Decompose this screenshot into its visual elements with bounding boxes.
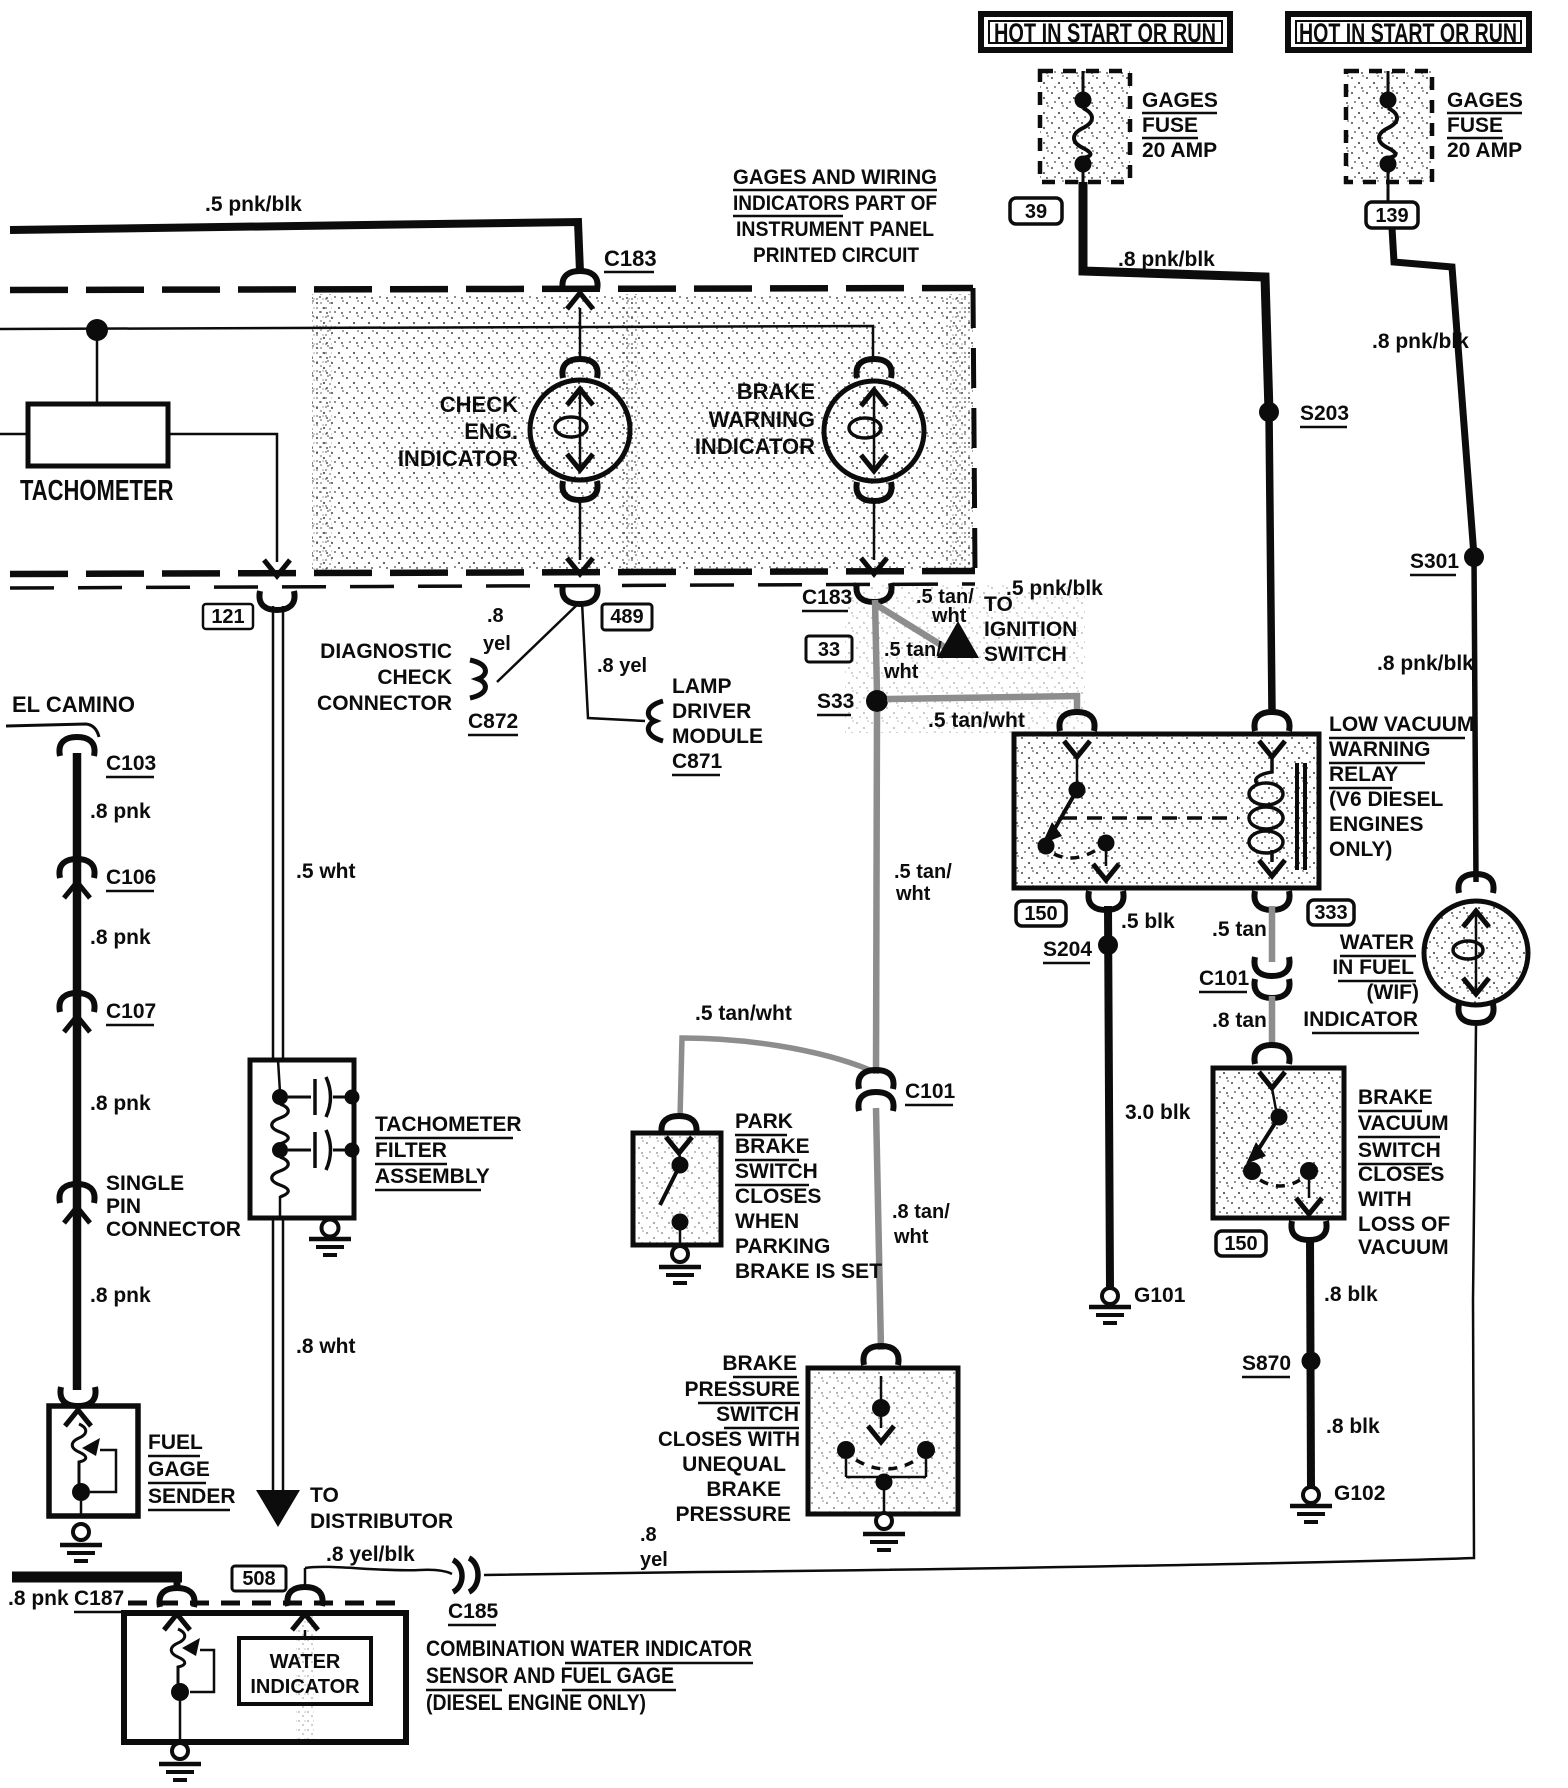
svg-text:.8 pnk: .8 pnk bbox=[90, 800, 151, 823]
svg-text:CHECK: CHECK bbox=[377, 666, 452, 689]
svg-text:PIN: PIN bbox=[106, 1195, 141, 1218]
svg-text:.5 wht: .5 wht bbox=[296, 860, 356, 883]
svg-text:DRIVER: DRIVER bbox=[672, 700, 751, 723]
svg-text:.8 tan/: .8 tan/ bbox=[892, 1201, 950, 1223]
wire .8 pnk/blk S301 to WIF indicator bbox=[1474, 557, 1476, 882]
svg-text:EL CAMINO: EL CAMINO bbox=[12, 692, 135, 717]
wire .8 yel to lamp driver module bbox=[582, 602, 645, 721]
svg-text:CHECK: CHECK bbox=[440, 392, 518, 417]
wire .8 blk brake vacuum switch to G102 bbox=[1310, 1237, 1311, 1487]
svg-text:C185: C185 bbox=[448, 1600, 499, 1623]
svg-text:INDICATOR: INDICATOR bbox=[250, 1676, 360, 1698]
svg-text:RELAY: RELAY bbox=[1329, 763, 1398, 786]
wire C183 to S33 bbox=[875, 600, 877, 694]
connector C183 (brake lamp out) bbox=[861, 558, 887, 574]
HOT IN START OR RUN box 1 bbox=[981, 14, 1230, 50]
wire .8 yel WIF to C185 bbox=[484, 1026, 1476, 1575]
svg-text:FUEL: FUEL bbox=[148, 1431, 203, 1454]
svg-text:SWITCH: SWITCH bbox=[716, 1403, 799, 1426]
svg-text:C183: C183 bbox=[604, 246, 657, 271]
svg-text:wht: wht bbox=[883, 661, 919, 683]
svg-text:.5 tan/: .5 tan/ bbox=[884, 639, 942, 661]
svg-text:C187: C187 bbox=[74, 1587, 124, 1610]
svg-text:HOT IN START OR RUN: HOT IN START OR RUN bbox=[1299, 19, 1517, 49]
connector 489 (check eng lamp out) bbox=[567, 558, 593, 574]
wire .5 tan relay to C101 bbox=[1269, 906, 1276, 962]
svg-text:MODULE: MODULE bbox=[672, 725, 763, 748]
svg-text:BRAKE: BRAKE bbox=[737, 379, 815, 404]
svg-text:BRAKE: BRAKE bbox=[706, 1478, 781, 1501]
svg-text:LAMP: LAMP bbox=[672, 675, 732, 698]
node (printed circuit junction) bbox=[86, 319, 108, 341]
svg-text:C101: C101 bbox=[905, 1080, 956, 1103]
svg-text:.5 tan/: .5 tan/ bbox=[894, 861, 952, 883]
HOT IN START OR RUN box 2 bbox=[1288, 14, 1529, 50]
svg-text:BRAKE: BRAKE bbox=[735, 1135, 810, 1158]
splice S203 bbox=[1259, 402, 1279, 422]
svg-text:WHEN: WHEN bbox=[735, 1210, 799, 1233]
svg-text:INDICATOR: INDICATOR bbox=[1303, 1008, 1418, 1031]
wire .8 tan/wht C101 to brake pressure switch bbox=[876, 1108, 881, 1350]
svg-text:C106: C106 bbox=[106, 866, 156, 889]
splice S204 bbox=[1098, 935, 1118, 955]
wire .5 pnk/blk from fuse panel bbox=[10, 222, 580, 272]
svg-text:ONLY): ONLY) bbox=[1329, 838, 1392, 861]
relay coil bbox=[1254, 712, 1289, 731]
svg-text:DIAGNOSTIC: DIAGNOSTIC bbox=[320, 640, 452, 663]
svg-text:20 AMP: 20 AMP bbox=[1142, 139, 1217, 162]
svg-text:PRESSURE: PRESSURE bbox=[675, 1503, 791, 1526]
wire .8 yel to diagnostic check connector bbox=[497, 602, 580, 682]
svg-text:PARK: PARK bbox=[735, 1110, 793, 1133]
svg-text:20 AMP: 20 AMP bbox=[1447, 139, 1522, 162]
connector C185 bbox=[453, 1560, 462, 1592]
wire .5 pnk/blk S203 to relay coil bbox=[1269, 412, 1272, 712]
wire .8 yel/blk to C185 bbox=[305, 1567, 452, 1574]
svg-text:.8 blk: .8 blk bbox=[1326, 1415, 1380, 1438]
svg-text:VACUUM: VACUUM bbox=[1358, 1112, 1449, 1135]
svg-text:wht: wht bbox=[893, 1226, 929, 1248]
wire into tachometer (left) bbox=[0, 433, 28, 436]
splice S33 bbox=[866, 690, 888, 712]
svg-text:PRESSURE: PRESSURE bbox=[684, 1378, 800, 1401]
wire .5 blk relay to G101 bbox=[1108, 906, 1110, 1288]
instrument panel printed-circuit shaded region bbox=[312, 294, 973, 570]
svg-text:WATER: WATER bbox=[270, 1651, 341, 1673]
svg-text:.5 tan: .5 tan bbox=[1212, 918, 1267, 941]
svg-text:G101: G101 bbox=[1134, 1284, 1186, 1307]
svg-text:.5 tan/wht: .5 tan/wht bbox=[928, 709, 1025, 732]
svg-text:C871: C871 bbox=[672, 750, 723, 773]
svg-text:BRAKE: BRAKE bbox=[1358, 1086, 1433, 1109]
svg-text:S870: S870 bbox=[1242, 1352, 1291, 1375]
wire branch to park brake switch bbox=[680, 1038, 870, 1118]
svg-text:GAGE: GAGE bbox=[148, 1458, 210, 1481]
wire .8 pnk/blk fuse1 to S203 bbox=[1083, 182, 1269, 412]
svg-text:FUSE: FUSE bbox=[1447, 114, 1503, 137]
single pin connector bbox=[59, 1184, 94, 1203]
svg-text:CLOSES: CLOSES bbox=[735, 1185, 821, 1208]
relay actuation dashed link bbox=[1062, 816, 1238, 820]
diagnostic check connector C872 bbox=[470, 660, 485, 698]
svg-text:.5 tan/wht: .5 tan/wht bbox=[695, 1002, 792, 1025]
dashed top of combination box bbox=[128, 1601, 404, 1606]
connector C103 bbox=[59, 737, 94, 756]
svg-text:SINGLE: SINGLE bbox=[106, 1172, 184, 1195]
svg-text:.8 wht: .8 wht bbox=[296, 1335, 356, 1358]
svg-text:C872: C872 bbox=[468, 710, 518, 733]
svg-text:.8 pnk: .8 pnk bbox=[90, 1284, 151, 1307]
wire .8 tan C101 to brake vacuum switch bbox=[1269, 996, 1276, 1046]
wire check lamp to connector 489 bbox=[579, 497, 582, 560]
gages fuse 1 (20 AMP) bbox=[1040, 71, 1130, 182]
svg-text:.5 blk: .5 blk bbox=[1121, 910, 1175, 933]
svg-text:SWITCH: SWITCH bbox=[1358, 1139, 1441, 1162]
svg-text:.8 pnk/blk: .8 pnk/blk bbox=[1118, 248, 1215, 271]
wire .8 wht to distributor bbox=[272, 1218, 275, 1492]
svg-text:SENDER: SENDER bbox=[148, 1485, 236, 1508]
svg-text:UNEQUAL: UNEQUAL bbox=[682, 1453, 786, 1476]
svg-text:S301: S301 bbox=[1410, 550, 1459, 573]
svg-text:3.0 blk: 3.0 blk bbox=[1125, 1101, 1191, 1124]
svg-text:.8 pnk: .8 pnk bbox=[90, 926, 151, 949]
svg-text:121: 121 bbox=[211, 606, 244, 628]
svg-text:CONNECTOR: CONNECTOR bbox=[106, 1218, 241, 1241]
svg-text:.8 blk: .8 blk bbox=[1324, 1283, 1378, 1306]
svg-text:INSTRUMENT PANEL: INSTRUMENT PANEL bbox=[736, 218, 934, 241]
relay core bars bbox=[1295, 763, 1299, 870]
svg-text:TACHOMETER: TACHOMETER bbox=[20, 475, 173, 506]
svg-text:FUSE: FUSE bbox=[1142, 114, 1198, 137]
connector 39 bbox=[1010, 198, 1062, 224]
svg-text:C183: C183 bbox=[802, 586, 852, 609]
svg-text:.5 pnk/blk: .5 pnk/blk bbox=[205, 193, 302, 216]
relay armature lever bbox=[1054, 790, 1077, 830]
svg-text:CONNECTOR: CONNECTOR bbox=[317, 692, 452, 715]
svg-text:LOSS OF: LOSS OF bbox=[1358, 1213, 1450, 1236]
wire C183 to check engine lamp bbox=[579, 308, 582, 362]
filter case ground bbox=[322, 1220, 339, 1237]
instrument panel dashed border (bottom, double) bbox=[10, 571, 975, 574]
brake warning indicator lamp bbox=[856, 359, 891, 378]
svg-text:HOT IN START OR RUN: HOT IN START OR RUN bbox=[994, 19, 1216, 49]
svg-text:DISTRIBUTOR: DISTRIBUTOR bbox=[310, 1510, 453, 1533]
svg-text:.8: .8 bbox=[640, 1524, 657, 1546]
wire .5 wht (shielded pair) bbox=[272, 606, 275, 1060]
connector 121 bbox=[264, 560, 290, 576]
wire .5 tan/wht S33 down bbox=[876, 712, 877, 1074]
svg-text:150: 150 bbox=[1024, 903, 1057, 925]
svg-text:INDICATORS PART OF: INDICATORS PART OF bbox=[733, 192, 937, 215]
connector 139 bbox=[1366, 202, 1418, 228]
svg-text:.8 pnk/blk: .8 pnk/blk bbox=[1377, 652, 1474, 675]
svg-text:.8 yel: .8 yel bbox=[597, 655, 647, 677]
connector C101 (park/pressure feed) bbox=[858, 1070, 893, 1089]
connector C107 bbox=[59, 993, 94, 1012]
svg-text:(DIESEL ENGINE ONLY): (DIESEL ENGINE ONLY) bbox=[426, 1690, 646, 1715]
svg-text:TO: TO bbox=[310, 1484, 339, 1507]
svg-text:PARKING: PARKING bbox=[735, 1235, 830, 1258]
svg-text:CLOSES: CLOSES bbox=[1358, 1163, 1444, 1186]
capacitor (lower) bbox=[288, 1149, 311, 1152]
connector C101 (relay output) bbox=[1254, 957, 1289, 976]
svg-text:139: 139 bbox=[1375, 205, 1408, 227]
svg-text:ENGINES: ENGINES bbox=[1329, 813, 1424, 836]
wire tachometer to connector 121 bbox=[168, 434, 277, 562]
svg-text:IGNITION: IGNITION bbox=[984, 618, 1077, 641]
svg-text:.8 pnk: .8 pnk bbox=[90, 1092, 151, 1115]
svg-text:33: 33 bbox=[818, 639, 840, 661]
instrument panel dashed border (right) bbox=[973, 288, 975, 572]
ground G101 bbox=[1102, 1288, 1118, 1304]
svg-text:TACHOMETER: TACHOMETER bbox=[375, 1113, 522, 1136]
svg-text:wht: wht bbox=[931, 605, 967, 627]
wire S33 to relay bbox=[887, 696, 1077, 712]
svg-text:BRAKE: BRAKE bbox=[722, 1352, 797, 1375]
svg-text:ENG.: ENG. bbox=[464, 419, 518, 444]
svg-text:.8 yel/blk: .8 yel/blk bbox=[326, 1543, 415, 1566]
wire .8 pnk/blk fuse2 to S301 bbox=[1392, 228, 1474, 556]
svg-text:S33: S33 bbox=[817, 690, 854, 713]
relay output connectors 150 / 333 bbox=[1088, 891, 1123, 910]
connector C183 (top, into instrument panel) bbox=[562, 271, 597, 290]
svg-text:yel: yel bbox=[483, 633, 511, 655]
splice S301 bbox=[1464, 547, 1484, 567]
svg-text:.8 tan: .8 tan bbox=[1212, 1009, 1267, 1032]
svg-text:.8 pnk: .8 pnk bbox=[8, 1587, 69, 1610]
to ignition switch arrow bbox=[937, 621, 979, 658]
svg-text:SWITCH: SWITCH bbox=[984, 643, 1067, 666]
svg-text:CLOSES WITH: CLOSES WITH bbox=[658, 1428, 800, 1451]
svg-text:(WIF): (WIF) bbox=[1367, 981, 1419, 1004]
connector C106 bbox=[59, 859, 94, 878]
fuel gage sender element bbox=[164, 1614, 190, 1630]
svg-text:C101: C101 bbox=[1199, 967, 1250, 990]
svg-text:GAGES AND WIRING: GAGES AND WIRING bbox=[733, 166, 937, 189]
wire node to tachometer bbox=[96, 330, 99, 404]
svg-text:IN FUEL: IN FUEL bbox=[1332, 956, 1414, 979]
svg-text:SWITCH: SWITCH bbox=[735, 1160, 818, 1183]
instrument panel dashed border (top) bbox=[10, 288, 973, 290]
svg-text:.8 pnk/blk: .8 pnk/blk bbox=[1372, 330, 1469, 353]
to distributor arrow bbox=[256, 1490, 300, 1527]
tachometer bbox=[28, 404, 168, 466]
wire .8 pnk C187 bbox=[12, 1572, 182, 1583]
wire .5 tan/wht to ignition switch bbox=[875, 604, 946, 648]
svg-text:COMBINATION WATER INDICATOR: COMBINATION WATER INDICATOR bbox=[426, 1636, 752, 1661]
capacitor (upper) bbox=[288, 1096, 311, 1099]
svg-text:C107: C107 bbox=[106, 1000, 156, 1023]
svg-text:489: 489 bbox=[610, 606, 643, 628]
svg-text:150: 150 bbox=[1224, 1233, 1257, 1255]
svg-text:39: 39 bbox=[1025, 201, 1047, 223]
svg-text:508: 508 bbox=[242, 1568, 275, 1590]
svg-text:WITH: WITH bbox=[1358, 1188, 1412, 1211]
gages fuse 2 (20 AMP) bbox=[1346, 71, 1432, 182]
wire .8 pnk bbox=[73, 753, 82, 1390]
svg-text:WATER: WATER bbox=[1340, 931, 1414, 954]
svg-text:333: 333 bbox=[1314, 902, 1347, 924]
svg-text:C103: C103 bbox=[106, 752, 156, 775]
water indicator bbox=[239, 1638, 371, 1704]
svg-text:yel: yel bbox=[640, 1549, 668, 1571]
svg-text:LOW VACUUM: LOW VACUUM bbox=[1329, 713, 1474, 736]
svg-text:.8: .8 bbox=[487, 605, 504, 627]
splice S870 bbox=[1302, 1352, 1321, 1371]
svg-text:VACUUM: VACUUM bbox=[1358, 1236, 1449, 1259]
svg-text:FILTER: FILTER bbox=[375, 1139, 447, 1162]
svg-text:(V6 DIESEL: (V6 DIESEL bbox=[1329, 788, 1444, 811]
svg-text:BRAKE IS SET: BRAKE IS SET bbox=[735, 1260, 882, 1283]
fuel gage sender bbox=[60, 1387, 95, 1406]
svg-text:ASSEMBLY: ASSEMBLY bbox=[375, 1165, 490, 1188]
svg-text:WARNING: WARNING bbox=[1329, 738, 1431, 761]
svg-text:PRINTED CIRCUIT: PRINTED CIRCUIT bbox=[753, 244, 919, 267]
ground G102 bbox=[1303, 1487, 1319, 1503]
lamp driver module C871 bbox=[648, 701, 663, 741]
connector 508 bbox=[304, 1630, 307, 1638]
svg-text:S203: S203 bbox=[1300, 402, 1349, 425]
svg-text:GAGES: GAGES bbox=[1142, 89, 1218, 112]
svg-text:SENSOR AND FUEL GAGE: SENSOR AND FUEL GAGE bbox=[426, 1663, 674, 1688]
water in fuel (WIF) indicator lamp bbox=[1458, 874, 1493, 893]
svg-text:WARNING: WARNING bbox=[709, 407, 815, 432]
svg-text:GAGES: GAGES bbox=[1447, 89, 1523, 112]
svg-text:INDICATOR: INDICATOR bbox=[695, 434, 815, 459]
svg-text:.5 pnk/blk: .5 pnk/blk bbox=[1006, 577, 1103, 600]
wire brake lamp to C183 bottom bbox=[873, 498, 876, 560]
svg-text:INDICATOR: INDICATOR bbox=[398, 446, 518, 471]
printed circuit trace bbox=[0, 326, 873, 360]
svg-text:G102: G102 bbox=[1334, 1482, 1385, 1505]
check engine indicator lamp bbox=[562, 359, 597, 378]
svg-text:S204: S204 bbox=[1043, 938, 1092, 961]
svg-text:wht: wht bbox=[895, 883, 931, 905]
